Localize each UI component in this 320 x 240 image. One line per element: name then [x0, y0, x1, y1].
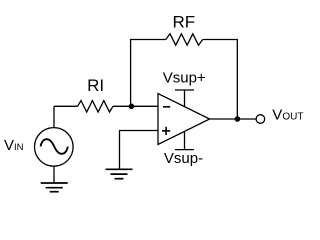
svg-text:Vsup-: Vsup- — [164, 150, 203, 167]
svg-text:VOUT: VOUT — [272, 107, 303, 124]
svg-text:RF: RF — [172, 13, 195, 32]
svg-text:Vsup+: Vsup+ — [163, 70, 206, 87]
svg-text:VIN: VIN — [4, 137, 24, 154]
svg-text:RI: RI — [87, 76, 104, 95]
